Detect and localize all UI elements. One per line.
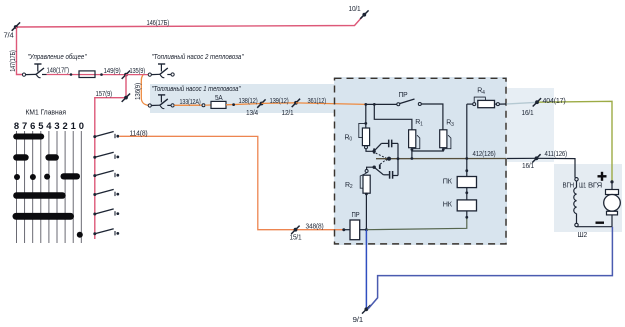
R0 bottom terminal xyxy=(365,146,375,152)
svg-text:6: 6 xyxy=(30,120,35,131)
svg-text:"Управление общее": "Управление общее" xyxy=(28,52,87,61)
svg-text:R2: R2 xyxy=(345,182,353,190)
wire blue to 9/1 xyxy=(365,230,367,309)
wire 135 pink xyxy=(126,74,148,76)
svg-text:16/1: 16/1 xyxy=(522,163,534,170)
svg-text:114(8): 114(8) xyxy=(130,130,148,137)
svg-text:133(12А): 133(12А) xyxy=(180,99,201,106)
connector 7/4 xyxy=(12,22,20,30)
wire R0 branch xyxy=(364,104,367,128)
cam row 1 bar (8-5) xyxy=(13,134,44,140)
wire R1-R3 bottom link xyxy=(412,148,443,158)
wire 139(12) orange xyxy=(262,102,297,105)
wire 146(17Б) top horizontal pink xyxy=(17,17,363,28)
minus terminal xyxy=(596,221,605,223)
cam row 3 dot col6 xyxy=(30,174,36,180)
resistor R2 xyxy=(360,170,370,194)
svg-text:5А: 5А xyxy=(215,95,223,102)
wire ПР to R3 xyxy=(421,104,443,130)
svg-text:146(17Б): 146(17Б) xyxy=(147,20,170,27)
КМ1 contact 5 xyxy=(93,209,119,216)
wire R1 jog xyxy=(374,104,412,129)
svg-text:12/1: 12/1 xyxy=(282,110,294,117)
svg-text:ПР: ПР xyxy=(399,92,409,99)
wire blue return right xyxy=(368,227,612,309)
resistor (управление) xyxy=(79,71,95,78)
winding ПК xyxy=(457,177,476,188)
svg-text:R0: R0 xyxy=(345,135,353,143)
svg-text:4: 4 xyxy=(46,120,52,131)
node dot orange entry xyxy=(364,103,367,106)
svg-text:R3: R3 xyxy=(446,120,454,128)
winding НК xyxy=(457,200,476,211)
svg-text:"Топливный насос 1 тепловоза": "Топливный насос 1 тепловоза" xyxy=(152,84,241,93)
connector 9/1 xyxy=(362,305,371,314)
wire R2 to ПР coil xyxy=(365,193,368,230)
КМ1 contact 6 xyxy=(93,229,119,236)
connector 12/1 xyxy=(292,99,300,107)
cam row 3 dot col4 xyxy=(44,174,50,180)
svg-text:136(9): 136(9) xyxy=(135,83,142,100)
svg-text:361(12): 361(12) xyxy=(308,98,327,105)
node dot R1 branch xyxy=(373,103,376,106)
node dot between ПК НК xyxy=(465,188,468,200)
svg-text:7: 7 xyxy=(22,120,27,131)
svg-text:ВГЯ: ВГЯ xyxy=(588,183,602,190)
capacitor C2 xyxy=(383,171,398,179)
switch Топливный насос 2 xyxy=(148,64,174,78)
svg-text:147(17Б): 147(17Б) xyxy=(10,50,17,72)
node X junction 135 xyxy=(122,71,130,79)
resistor R4 xyxy=(467,97,500,108)
connector 10/1 xyxy=(360,10,368,18)
motor armature ВГЯ xyxy=(604,190,621,227)
fuse 5А xyxy=(211,101,226,108)
svg-text:9/1: 9/1 xyxy=(353,317,364,324)
resistor R0 xyxy=(359,123,370,145)
svg-text:7/4: 7/4 xyxy=(4,33,14,40)
cam row 4 bar (8-2) xyxy=(13,192,65,199)
cam row 6 dot col0 xyxy=(77,232,83,238)
wire 148 pink xyxy=(47,73,127,76)
svg-text:411(126): 411(126) xyxy=(545,151,568,158)
svg-text:10/1: 10/1 xyxy=(349,6,361,13)
cam controller КМ1 position digits xyxy=(14,120,84,131)
svg-text:149(9): 149(9) xyxy=(104,68,121,75)
КМ1 contact 3 xyxy=(93,171,119,178)
svg-text:13/4: 13/4 xyxy=(246,110,258,117)
svg-text:Ш2: Ш2 xyxy=(578,232,588,239)
wire 411(126) xyxy=(507,158,576,177)
svg-text:ВГН: ВГН xyxy=(563,183,575,190)
svg-text:КМ1 Главная: КМ1 Главная xyxy=(26,108,67,117)
svg-text:8: 8 xyxy=(14,120,19,131)
cam row 5 bar (8-1) xyxy=(13,213,75,220)
svg-text:0: 0 xyxy=(79,120,84,131)
wire 136(9) orange tap xyxy=(141,75,148,105)
wire 149(9) pink xyxy=(100,73,103,76)
svg-text:2: 2 xyxy=(62,120,67,131)
svg-text:157(9): 157(9) xyxy=(96,91,113,98)
cam controller column lines xyxy=(17,131,82,243)
wire R4 left vertical xyxy=(465,104,468,176)
svg-text:138(12): 138(12) xyxy=(239,98,258,105)
svg-text:412(126): 412(126) xyxy=(473,151,496,158)
connector 16/1 bottom xyxy=(532,154,540,162)
КМ1 contact 1 xyxy=(93,132,119,139)
inductor ВГН coil xyxy=(574,178,578,227)
relay contact ПР xyxy=(397,99,422,106)
svg-text:Ш1: Ш1 xyxy=(579,183,586,190)
svg-text:139(12): 139(12) xyxy=(270,98,289,105)
svg-text:ПК: ПК xyxy=(443,178,453,185)
node dot R1 bottom xyxy=(411,148,414,151)
node dot R3 bottom xyxy=(442,148,445,151)
node X junction 157 xyxy=(122,94,130,102)
wire 147(17Б) vertical pink xyxy=(17,27,23,75)
resistor R1 xyxy=(409,130,420,149)
wire 412(126) line xyxy=(376,158,506,160)
wire cap vertical xyxy=(397,143,399,175)
switch Топливный насос 1 xyxy=(148,95,174,109)
svg-text:НК: НК xyxy=(443,202,453,209)
svg-text:R4: R4 xyxy=(477,88,485,96)
connector 15/1 xyxy=(291,226,299,234)
svg-text:3: 3 xyxy=(54,120,59,131)
plus terminal xyxy=(598,172,607,181)
transistor Т1 xyxy=(372,143,388,159)
svg-text:348(8): 348(8) xyxy=(306,224,324,231)
cam row 2 bar (8-7) xyxy=(13,154,29,160)
svg-text:148(17Г): 148(17Г) xyxy=(47,68,70,75)
svg-text:1: 1 xyxy=(71,120,76,131)
connector 16/1 top xyxy=(533,98,541,106)
connector 13/4 xyxy=(257,99,265,107)
svg-text:404(17): 404(17) xyxy=(543,98,566,105)
relay coil ПР xyxy=(342,220,368,240)
transistor Т2 xyxy=(367,159,389,175)
wire 133(12А) orange xyxy=(174,104,202,106)
svg-text:"Топливный насос 2 тепловоза": "Топливный насос 2 тепловоза" xyxy=(152,52,244,61)
КМ1 contact 2 xyxy=(93,152,119,159)
svg-text:R1: R1 xyxy=(415,119,423,127)
regulator block dashed border xyxy=(335,78,507,244)
cam row 2 bar (4-3) xyxy=(45,154,59,160)
svg-text:5: 5 xyxy=(38,120,43,131)
wire top line internal xyxy=(366,103,397,105)
wire 114(8) orange xyxy=(119,136,344,229)
capacitor C1 xyxy=(381,140,398,148)
wire 404(17) green xyxy=(507,101,613,181)
node dot НК bottom xyxy=(465,211,468,219)
svg-text:16/1: 16/1 xyxy=(522,110,534,117)
wire 138(12) orange xyxy=(226,103,261,106)
resistor R3 xyxy=(440,130,451,149)
terminal circle fuse left xyxy=(202,104,211,107)
switch Управление общее xyxy=(22,64,46,78)
wire Ш2 bottom xyxy=(577,226,613,228)
wire 157(9) pink vertical xyxy=(95,75,126,239)
cam row 3 dot col8 xyxy=(14,174,20,180)
svg-text:15/1: 15/1 xyxy=(290,235,302,242)
node dots on 412 line xyxy=(387,157,468,161)
wire R4 exit xyxy=(499,103,506,105)
wire 361(12) orange into box xyxy=(296,103,366,105)
КМ1 contact 4 xyxy=(93,189,119,196)
wire НК return xyxy=(366,217,466,230)
node dot motor plus xyxy=(610,180,613,189)
cam row 3 bar (2-0) xyxy=(61,173,81,179)
svg-text:ПР: ПР xyxy=(352,212,360,219)
